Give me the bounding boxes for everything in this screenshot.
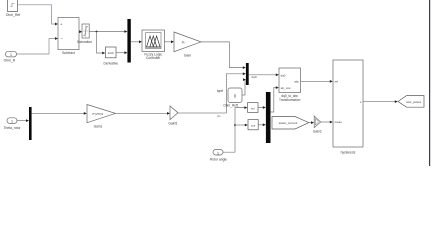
wire sin to Mux3 <box>258 106 266 109</box>
svg-text:Ohm_R: Ohm_R <box>4 58 16 62</box>
svg-text:hysteresis: hysteresis <box>341 151 356 155</box>
wire hysteresis to rotor_pulses goto <box>363 100 398 103</box>
svg-text:Gain2: Gain2 <box>313 130 322 134</box>
wire theta to Mux2 input 2 <box>227 72 246 113</box>
svg-text:Rotor angle: Rotor angle <box>210 157 227 161</box>
inport Rotor angle <box>213 149 223 155</box>
label Fuzzy Logic Controller <box>144 52 162 60</box>
inport Ohm_R <box>6 51 17 57</box>
svg-text:Gain5: Gain5 <box>168 122 177 126</box>
svg-text:du/dt: du/dt <box>108 51 114 55</box>
svg-text:Iqref: Iqref <box>217 89 223 93</box>
wire Gain to Mux2 input 1 (Iq ref) <box>201 42 246 69</box>
svg-text:dq0: dq0 <box>251 75 256 79</box>
node junction on error wire <box>96 31 98 33</box>
svg-text:sin_cos: sin_cos <box>281 86 291 90</box>
wire Gain1 to Gain5 <box>116 112 171 115</box>
mux Mux1 (e, de) <box>127 19 130 63</box>
svg-text:Theta_rotor: Theta_rotor <box>3 126 21 130</box>
wire Ohm_R to Subtract input 2 <box>17 37 59 54</box>
svg-text:stator_current: stator_current <box>279 121 298 125</box>
wire branch to cos <box>235 124 248 127</box>
goto tag rotor_pulses <box>398 96 424 108</box>
block sin <box>248 103 258 113</box>
svg-text:Gain1: Gain1 <box>94 125 103 129</box>
svg-text:abc: abc <box>294 80 299 84</box>
block cos <box>248 120 258 130</box>
wire Gain2 to hysteresis meas <box>321 121 333 124</box>
node junction to cos <box>234 124 236 126</box>
wire Mux1 to Fuzzy Logic Controller <box>131 40 142 43</box>
block Derivative <box>106 47 117 58</box>
gain Gain2 <box>314 116 320 128</box>
svg-text:ref: ref <box>335 80 339 84</box>
svg-text:Gain: Gain <box>184 53 191 57</box>
svg-text:Subtract: Subtract <box>62 51 75 55</box>
svg-text:dq0: dq0 <box>281 73 286 77</box>
svg-text:Transformation: Transformation <box>279 98 301 102</box>
wire Theta_rotor to Demux bar <box>17 119 29 122</box>
wire Demux to Gain1 <box>32 112 87 115</box>
svg-text:nm: nm <box>217 115 220 118</box>
gain Gain5 <box>170 106 178 120</box>
svg-text:1: 1 <box>217 151 219 155</box>
svg-text:1: 1 <box>10 53 12 57</box>
block dq0_to_abc Transformation <box>279 68 301 93</box>
inport Theta_rotor <box>7 118 17 124</box>
wire cos to Mux3 <box>258 123 266 126</box>
source block Ohm_Ref <box>8 0 18 12</box>
svg-text:−: − <box>60 36 63 41</box>
svg-text:1: 1 <box>11 120 13 124</box>
svg-text:-K-: -K- <box>181 40 185 44</box>
svg-text:Ohm_Ref1: Ohm_Ref1 <box>223 104 239 108</box>
wire dq0_to_abc to hysteresis ref <box>301 80 333 83</box>
gain Gain (-K-) <box>174 32 201 52</box>
block Fuzzy Logic Controller U1 <box>142 30 165 52</box>
svg-text:Saturation: Saturation <box>77 40 92 44</box>
svg-text:sin: sin <box>251 106 255 110</box>
wire Derivative to Mux <box>116 51 127 54</box>
svg-text:Ohm_Ref: Ohm_Ref <box>6 13 21 17</box>
wire Mux2 to dq0_to_abc input <box>249 73 279 76</box>
mux Mux2 (dq0) <box>246 63 249 85</box>
wire Subtract to Saturation <box>79 30 82 33</box>
wire stator_current to Gain2 <box>309 121 314 124</box>
subsystem hysteresis <box>333 60 363 147</box>
svg-text:rotor_pulses: rotor_pulses <box>406 100 422 104</box>
block Subtract <box>58 18 79 50</box>
svg-text:Derivative: Derivative <box>103 62 118 66</box>
wire branch to Derivative <box>97 32 106 55</box>
wire Fuzzy to Gain <box>165 40 175 43</box>
block Saturation <box>82 24 89 38</box>
from tag stator_current <box>272 117 309 130</box>
label dq0_to_abc Transformation <box>279 94 301 102</box>
wire Rotor angle up to sin <box>223 106 247 152</box>
mux Mux3 (sin_cos) <box>266 92 271 143</box>
page border right edge <box>429 0 430 166</box>
wire constant 0 to Mux2 input 3 <box>242 78 246 95</box>
svg-text:cos: cos <box>251 124 256 128</box>
wire Gain5 to theta vertical (up to Mux2) <box>178 113 227 118</box>
gain Gain1 (pole pairs scaling) <box>87 105 116 123</box>
svg-text:P*(2*P)/2: P*(2*P)/2 <box>92 112 103 116</box>
wire Ohm_Ref to Subtract input 1 <box>18 5 59 26</box>
constant block 0 (Ohm_Ref1) <box>228 88 242 103</box>
svg-text:meas: meas <box>335 120 343 124</box>
demux bar (rotor position) <box>29 107 32 140</box>
wire Saturation to Mux (error signal) <box>89 30 127 33</box>
wire Mux3 to dq0_to_abc sin_cos input <box>271 86 279 112</box>
svg-text:Controller: Controller <box>146 56 161 60</box>
